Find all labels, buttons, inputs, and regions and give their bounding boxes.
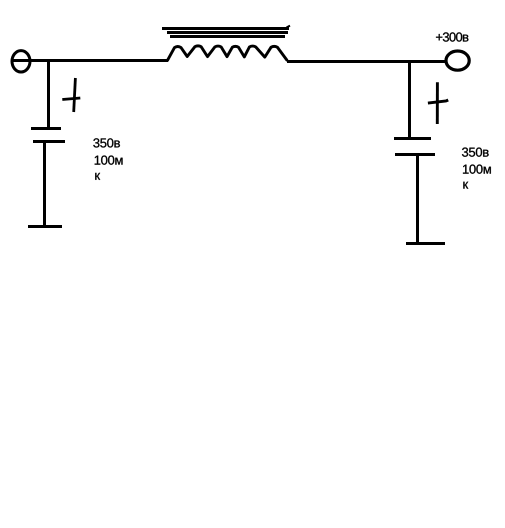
wire: input terminal to inductor	[11, 59, 168, 62]
capacitor C2 bottom plate	[395, 153, 435, 156]
left ground bar	[28, 225, 62, 228]
capacitor C1 bottom plate	[33, 140, 65, 143]
capacitor C2 top plate	[394, 137, 431, 140]
polarity mark + of C1	[62, 78, 80, 112]
inductor L1 core lamination line 2	[167, 31, 288, 34]
label C2 value: к	[463, 182, 468, 189]
label C1 value: 100м	[95, 156, 123, 165]
core line 1 end tick	[287, 26, 291, 28]
output terminal (right circle)	[446, 51, 469, 70]
wire: inductor to output terminal	[287, 60, 446, 63]
inductor L1 winding	[168, 46, 287, 60]
node B: right junction wire down to C2	[408, 61, 411, 138]
label C2 value: 100м	[463, 165, 491, 174]
inductor L1 core lamination line 3	[170, 35, 285, 38]
label +300в	[436, 32, 468, 41]
wire: C2 to right ground bar	[416, 154, 419, 243]
inductor L1 core lamination line 1	[162, 27, 289, 30]
capacitor C1 top plate	[31, 127, 61, 130]
wire: C1 to left ground bar	[43, 141, 46, 227]
label C1 value: к	[95, 173, 100, 180]
label C1 value: 350в	[93, 138, 120, 147]
right ground bar	[406, 242, 445, 245]
polarity mark + of C2	[428, 82, 448, 124]
node A: left junction wire down to C1	[47, 60, 50, 128]
label C2 value: 350в	[462, 148, 489, 157]
input terminal (left circle)	[12, 51, 30, 72]
